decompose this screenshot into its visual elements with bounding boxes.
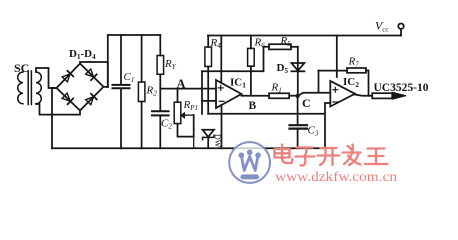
wire IC2 inverting input <box>325 103 330 148</box>
node C junction <box>296 94 300 98</box>
capacitor C2 <box>152 110 169 112</box>
capacitor C3 <box>297 96 299 125</box>
wire top rail 1 <box>108 34 161 36</box>
resistor RY <box>159 35 161 56</box>
wire top rail 2 <box>208 35 401 37</box>
svg-text:RP1: RP1 <box>183 99 199 112</box>
wire bridge top vertex to DC+ node <box>80 62 108 87</box>
wire DC+ vertical to top rail <box>107 35 109 87</box>
svg-text:IC2: IC2 <box>343 76 359 89</box>
svg-text:C3: C3 <box>308 125 319 138</box>
svg-text:DW: DW <box>213 134 222 148</box>
svg-text:A: A <box>177 77 186 91</box>
wire reference net (long horizontal) <box>208 113 325 115</box>
resistor output series <box>372 93 392 98</box>
开 <box>318 148 340 165</box>
resistor R7 <box>319 70 348 72</box>
diode D5 <box>297 47 299 96</box>
wire vertical branch at node left of IC1 <box>201 71 203 114</box>
diode D1 on upper-left edge <box>62 71 73 82</box>
wire supply branch to R5/D5 <box>202 70 264 72</box>
wire junction up to R7 <box>318 71 320 93</box>
terminal Vcc <box>400 29 402 35</box>
svg-text:IC1: IC1 <box>230 77 246 90</box>
svg-text:C2: C2 <box>161 118 172 131</box>
svg-text:D5: D5 <box>277 62 289 75</box>
zener diode DW <box>203 130 215 137</box>
wire node C to IC2 non-inverting input <box>298 93 331 96</box>
svg-text:SC: SC <box>14 61 29 75</box>
op-amp IC2 <box>330 81 355 107</box>
diode D3 on lower-left edge <box>62 93 73 104</box>
transformer SC windings <box>18 71 42 105</box>
svg-text:R6: R6 <box>254 37 266 50</box>
svg-text:UC3525-10: UC3525-10 <box>374 82 429 94</box>
svg-text:R4: R4 <box>210 37 222 50</box>
resistor R1 <box>269 93 289 98</box>
svg-text:R1: R1 <box>271 82 282 95</box>
svg-text:R2: R2 <box>146 85 158 98</box>
svg-text:RY: RY <box>164 58 177 71</box>
wire IC1 inverting input <box>202 100 216 102</box>
svg-text:B: B <box>249 100 257 112</box>
发 <box>343 145 361 166</box>
watermark logo circle W <box>229 142 270 183</box>
wire bridge left vertex to ground <box>52 88 57 148</box>
svg-text:C1: C1 <box>124 71 135 84</box>
watermark text 电子开发王 (drawn strokes) <box>275 145 388 166</box>
wire IC2 output <box>355 95 372 96</box>
wire transformer secondary top lead <box>36 68 57 88</box>
resistor R2 <box>141 35 143 82</box>
core <box>28 71 31 105</box>
bridge D1-D4 diamond <box>57 64 104 111</box>
wire IC1 output (node B) <box>242 95 270 97</box>
电 <box>275 145 293 164</box>
王 <box>365 149 388 165</box>
wire bottom rail (ground) <box>52 147 325 149</box>
wire IC1 V- pin to ground <box>221 105 223 148</box>
capacitor C1 <box>120 35 122 84</box>
svg-text:Vcc: Vcc <box>375 19 389 34</box>
svg-text:R7: R7 <box>348 56 360 69</box>
wire transformer secondary bottom lead <box>36 104 80 115</box>
svg-text:R5: R5 <box>280 35 292 48</box>
potentiometer RP1 <box>177 89 179 103</box>
arrow to UC3525 pin10 <box>392 92 406 99</box>
子 <box>296 148 315 166</box>
resistor R6 <box>250 36 252 49</box>
wire bridge right vertex to DC+ node <box>104 86 108 88</box>
wire node A horizontal <box>160 88 216 90</box>
diode D2 on upper-right edge <box>85 69 96 80</box>
diode D4 on lower-right edge <box>85 94 96 105</box>
resistor R4 <box>207 36 209 48</box>
resistor R5 <box>264 47 270 71</box>
svg-text:D1-D4: D1-D4 <box>69 48 96 61</box>
op-amp IC1 <box>216 80 242 108</box>
svg-text:www.dzkfw.com.cn: www.dzkfw.com.cn <box>275 169 397 184</box>
svg-text:C: C <box>302 96 311 110</box>
wire IC1 V+ pin to rail <box>220 36 222 84</box>
